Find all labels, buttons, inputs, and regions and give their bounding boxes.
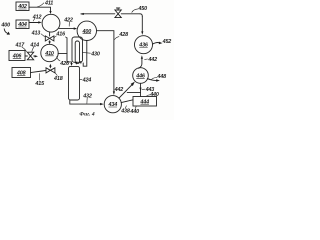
svg-text:440: 440 xyxy=(149,92,159,98)
label 411 xyxy=(38,1,54,7)
label 443 xyxy=(142,87,154,93)
svg-text:416: 416 xyxy=(55,31,66,37)
valve 450 on top line xyxy=(115,8,121,18)
svg-text:412: 412 xyxy=(32,14,42,20)
wire 434 right to box 444 xyxy=(121,100,133,103)
label 438 xyxy=(120,106,130,115)
column inner tube xyxy=(75,41,79,64)
pump circle 410 xyxy=(41,44,58,61)
svg-text:404: 404 xyxy=(17,22,27,28)
wire 422: mixer to compressor 400 xyxy=(59,27,77,29)
svg-text:417: 417 xyxy=(15,42,26,48)
label 442 lower xyxy=(114,87,124,93)
svg-text:411: 411 xyxy=(44,1,53,7)
top line with left arrow xyxy=(80,13,142,16)
annulus down arrow xyxy=(80,61,82,64)
svg-text:422: 422 xyxy=(63,17,73,23)
box 408 xyxy=(12,68,31,78)
label 413 xyxy=(31,30,45,36)
svg-text:438: 438 xyxy=(120,108,130,114)
wire 432: tank bottom to blower 434 xyxy=(70,100,104,105)
box 402 xyxy=(16,2,29,11)
svg-text:415: 415 xyxy=(34,81,45,87)
svg-text:442: 442 xyxy=(114,87,124,93)
label 416 xyxy=(54,31,66,37)
label 414 xyxy=(29,42,39,51)
svg-text:450: 450 xyxy=(137,6,147,12)
label 448 xyxy=(152,74,166,80)
inner tube down arrow into tank xyxy=(75,62,77,65)
valve 416 xyxy=(45,36,54,41)
svg-text:400: 400 xyxy=(0,23,10,29)
label 450 xyxy=(132,6,147,12)
svg-text:452: 452 xyxy=(162,39,172,45)
column 430 outer tube xyxy=(72,37,83,62)
wire 412: 404 to mixer xyxy=(29,21,42,23)
label 415 xyxy=(34,74,45,88)
compressor circle 400 xyxy=(77,21,96,40)
svg-text:430: 430 xyxy=(90,51,100,57)
wire mixer down to valve 416 and pump 410 xyxy=(48,32,50,45)
label 442 upper xyxy=(145,57,157,63)
box 404 xyxy=(16,20,29,29)
svg-text:418: 418 xyxy=(53,76,63,82)
svg-text:414: 414 xyxy=(29,42,39,48)
svg-text:424: 424 xyxy=(82,78,92,84)
svg-text:442: 442 xyxy=(147,57,157,63)
label 412 xyxy=(32,14,42,21)
wire 428: 400 right, down into 434 xyxy=(97,31,116,95)
wire 442 lower: 434 to 446 diagonal xyxy=(119,82,135,99)
svg-text:Фиг. 4: Фиг. 4 xyxy=(79,112,94,118)
wire from 400 bottom down left of tank xyxy=(83,40,87,66)
label 400 figure pointer xyxy=(0,23,10,35)
label 440 lower xyxy=(129,106,139,115)
valve 414 with arrow into 410 xyxy=(25,52,38,60)
valve 418 with arrow up into 410 xyxy=(46,64,55,73)
svg-text:413: 413 xyxy=(31,30,41,36)
svg-text:426: 426 xyxy=(59,61,70,67)
circle 436 xyxy=(135,36,153,54)
arrow 448 out of 446 xyxy=(147,79,160,82)
label 432 xyxy=(82,93,92,103)
label 418 xyxy=(53,72,63,82)
wire 426: from 410 right and junction down to tank xyxy=(58,37,72,66)
box 444 xyxy=(133,97,157,107)
svg-text:444: 444 xyxy=(139,99,149,105)
svg-text:440: 440 xyxy=(129,109,139,115)
wire 402 to mixer with arrow 411 xyxy=(29,7,52,14)
label 428 xyxy=(115,32,128,39)
wire 415: 408 to valve 418 xyxy=(31,70,47,72)
circle 434 xyxy=(104,96,121,113)
label 422 xyxy=(63,17,73,26)
label 430 xyxy=(82,51,99,57)
label 426 xyxy=(57,56,70,67)
label 440 upper xyxy=(146,92,158,98)
svg-text:428: 428 xyxy=(118,32,128,38)
wire 446 down into box 444 xyxy=(127,83,141,96)
box 406 xyxy=(9,51,25,61)
label 424 xyxy=(79,78,91,84)
label 417 xyxy=(15,42,27,51)
mixer circle (unlabeled) xyxy=(42,14,60,32)
circle 446 xyxy=(133,68,149,84)
svg-text:448: 448 xyxy=(156,74,166,80)
wire 442: 446 top up into 436 bottom xyxy=(139,55,143,68)
arrow 452 out of 436 xyxy=(152,39,171,45)
wire down into 436 xyxy=(141,16,143,35)
tank 424 xyxy=(69,66,80,100)
